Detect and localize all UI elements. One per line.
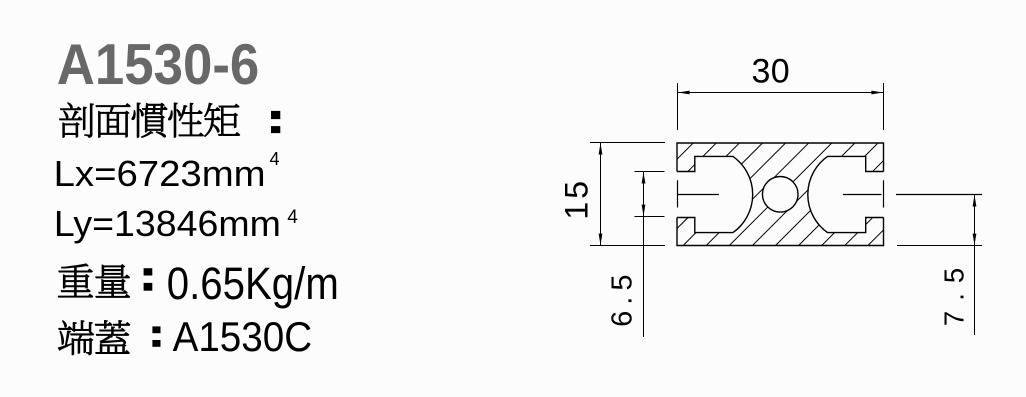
svg-text:4: 4 (287, 207, 298, 228)
svg-text:0.65Kg/m: 0.65Kg/m (167, 258, 339, 309)
svg-text:6.5: 6.5 (607, 269, 639, 327)
svg-text:A1530-6: A1530-6 (57, 33, 259, 97)
svg-text:7.5: 7.5 (939, 258, 970, 326)
svg-text:A1530C: A1530C (173, 313, 313, 360)
svg-text:4: 4 (270, 149, 280, 169)
svg-text:30: 30 (752, 52, 790, 90)
svg-text:Lx=6723mm: Lx=6723mm (54, 153, 266, 194)
svg-text:15: 15 (559, 178, 595, 220)
svg-text:Ly=13846mm: Ly=13846mm (54, 203, 281, 244)
